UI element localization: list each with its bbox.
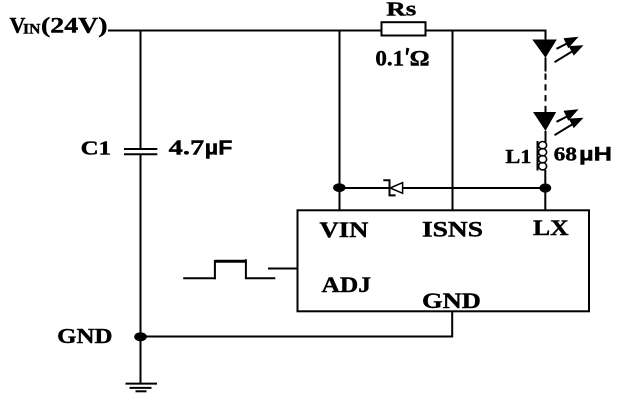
label 68µH value of L1 [554,143,612,165]
LED D2 emission arrows [555,109,584,135]
LED D1 body [532,40,557,58]
inductor L1 core bar [537,141,539,171]
svg-text:GND: GND [57,324,112,348]
node label VIN(24V) [10,12,108,37]
wire: freewheel diode net, left segment (VIN node to diode cathode) [340,187,390,189]
IC U1 body [298,210,590,311]
wire: C1 branch vertical (rail to C1 top plate) [140,30,142,149]
capacitor C1 top plate [124,148,157,150]
junction dot: GND node [134,332,147,341]
wire: IC GND pin down [451,311,453,338]
wire: LED string top stub [545,30,547,42]
ground symbol [126,384,158,392]
svg-text:Ω: Ω [410,46,430,71]
svg-text:68: 68 [554,143,577,165]
svg-text:4.7: 4.7 [169,135,205,159]
wire: VIN branch vertical (rail to IC VIN pin) [339,30,341,212]
svg-text:IN: IN [23,21,41,37]
svg-text:ADJ: ADJ [322,272,371,297]
svg-text:VIN: VIN [320,217,369,242]
svg-text:Rs: Rs [386,0,416,21]
svg-text:0.1: 0.1 [375,46,404,71]
wire: LED D2 to inductor L1 [545,131,547,143]
diode D3 (schottky) cathode bar with hooks [383,180,395,195]
LED D1 emission arrows [555,37,584,62]
PWM waveform: low segment right [246,277,275,279]
junction dot: LX node / inductor bottom [539,183,551,192]
PWM waveform: low segment left [183,277,216,279]
PWM waveform: high segment [215,260,246,263]
wire: C1 bottom plate down to ground symbol [140,154,142,383]
wire: freewheel diode net, right segment (diode anode to LX node) [403,187,546,189]
wire: ground rail (GND dot to IC GND pin) [141,336,453,338]
inductor L1 coil [539,142,547,170]
resistor Rs body [382,22,426,35]
capacitor C1 bottom plate [124,153,157,155]
junction dot: VIN node / diode cathode [333,183,345,192]
wire: top rail from resistor Rs to LED column [425,30,547,32]
svg-text:LX: LX [533,215,569,240]
diode D3 triangle (anode, pointing left) [390,183,402,194]
LED D2 body [533,112,556,131]
wire: ADJ stub into IC left edge [268,268,298,270]
svg-text:C1: C1 [81,137,111,159]
svg-text:L1: L1 [505,147,531,168]
wire: dashed link between LED D1 and LED D2 [545,74,547,113]
wire: top rail from VIN label to resistor Rs [108,30,382,32]
svg-text:GND: GND [422,288,481,313]
svg-text:ISNS: ISNS [422,216,483,241]
svg-text:(24V): (24V) [41,12,108,37]
PWM waveform: rising edge [214,260,216,279]
svg-text:µF: µF [205,137,233,159]
wire: short solid below D1 [545,58,547,72]
svg-text:µH: µH [579,144,612,165]
label 0.1Ω value of Rs [375,46,429,71]
label 4.7µF value of C1 [169,135,233,159]
wire: ISNS branch vertical (rail to IC ISNS pin) [452,30,454,212]
PWM waveform: falling edge [245,259,247,279]
wire: L1 to LX pin (through junction) [544,170,546,211]
